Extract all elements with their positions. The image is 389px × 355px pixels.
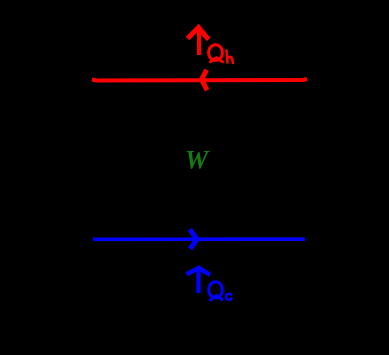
arrowhead on hot line (points left) — [202, 72, 207, 88]
label Qc (blue handwritten) — [209, 282, 232, 300]
hot reservoir line (red) — [92, 79, 307, 81]
svg-text:W: W — [185, 146, 210, 175]
heat flow arrow Qc (blue, upward) — [187, 268, 211, 293]
heat flow arrow Qh (red, upward) — [188, 28, 209, 56]
arrowhead on cold line (points right) — [191, 231, 197, 247]
label Qh (red handwritten) — [209, 45, 233, 63]
cold reservoir line (blue) — [93, 237, 305, 241]
